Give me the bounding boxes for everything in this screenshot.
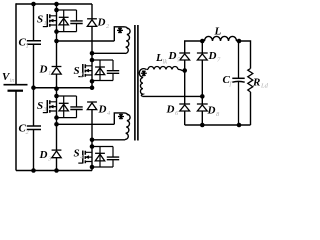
svg-text:S: S: [74, 148, 80, 160]
svg-text:6: 6: [175, 110, 179, 117]
transistor S4: [74, 148, 92, 164]
svg-text:D: D: [168, 50, 177, 62]
wire S2 snubber bottom: [92, 80, 113, 82]
node Cf top: [237, 39, 242, 44]
svg-text:D: D: [98, 104, 107, 116]
node secondary to leg2: [200, 94, 205, 99]
capacitor C2: [19, 88, 42, 171]
wire leg1 bottom: [184, 111, 186, 125]
node S4 snubber bottom: [90, 165, 95, 170]
wire S1 leg: [56, 4, 58, 67]
node mid rail S2: [90, 85, 95, 90]
wire bottom rail: [16, 170, 92, 172]
wire S3 leg: [56, 88, 58, 150]
diode D8: [197, 104, 220, 118]
wire output rail right: [237, 41, 251, 69]
svg-text:D: D: [207, 105, 216, 117]
wire node A2 to primary 2: [57, 123, 115, 125]
transistor S3: [37, 100, 56, 113]
wire left rail lower: [15, 91, 17, 171]
svg-text:1: 1: [48, 70, 51, 77]
wire mid rail: [34, 87, 93, 89]
svg-text:D: D: [166, 104, 175, 116]
node leg2 bottom rail: [200, 123, 205, 128]
diode S3 antiparallel: [59, 96, 69, 118]
svg-text:1: 1: [44, 20, 47, 27]
node bottom rail D3: [54, 168, 59, 173]
inductor L leakage: [147, 52, 185, 71]
wire S2 snubber top: [92, 59, 113, 61]
transistor S1: [37, 14, 56, 28]
capacitor S1 snubber: [70, 10, 82, 32]
svg-text:D: D: [39, 149, 48, 161]
diode S2 antiparallel: [95, 60, 105, 81]
wire leg1 mid: [184, 60, 186, 104]
resistor RLd: [248, 69, 269, 126]
diode D2: [87, 4, 110, 53]
node S2 snubber bottom: [90, 79, 95, 84]
svg-text:2: 2: [106, 23, 110, 30]
node mid rail S3: [54, 86, 59, 91]
transformer secondary winding: [139, 69, 147, 97]
wire S1 snubber top: [57, 9, 77, 11]
node A: [54, 39, 59, 44]
node S4 snubber top: [90, 144, 95, 149]
svg-text:in: in: [10, 77, 15, 84]
node leg2 output top: [200, 39, 205, 44]
transistor S2: [74, 64, 92, 79]
diode D1: [39, 64, 62, 88]
svg-text:f: f: [230, 81, 233, 88]
capacitor S4 snubber: [107, 147, 119, 168]
wire S4 snubber bottom: [92, 166, 113, 168]
node mid rail C: [31, 85, 36, 90]
wire node A to primary 1: [57, 40, 115, 42]
wire rectifier leg 1: [184, 41, 186, 53]
svg-text:1: 1: [26, 43, 29, 50]
wire rectifier leg 2 top: [201, 41, 203, 53]
node B primary1: [90, 51, 95, 56]
node B2 primary2: [90, 138, 95, 143]
node S1 snubber top: [54, 8, 59, 13]
svg-text:3: 3: [47, 156, 52, 163]
diode D3: [39, 149, 62, 171]
diode D7: [197, 50, 221, 64]
svg-text:lk: lk: [163, 59, 168, 66]
wire S2 leg: [91, 53, 93, 87]
svg-text:S: S: [37, 100, 43, 112]
node top rail S1: [54, 2, 59, 7]
node bottom rail C2: [31, 168, 36, 173]
svg-text:D: D: [208, 50, 217, 62]
svg-text:D: D: [39, 64, 48, 76]
diode D6: [166, 104, 191, 118]
transformer primary winding 1: [92, 27, 130, 54]
node S3 snubber bottom: [54, 115, 59, 120]
capacitor Cf: [223, 41, 245, 125]
wire output bottom rail: [185, 124, 251, 126]
node A2: [54, 122, 59, 127]
wire S4 leg: [91, 110, 93, 171]
diode S4 antiparallel: [95, 147, 105, 168]
svg-text:D: D: [97, 17, 106, 29]
wire left rail upper: [15, 3, 17, 84]
capacitor C1: [19, 4, 42, 88]
svg-text:8: 8: [216, 111, 220, 118]
svg-text:S: S: [37, 14, 43, 26]
svg-text:Ld: Ld: [260, 83, 269, 90]
wire leg2 mid: [201, 60, 203, 104]
capacitor S2 snubber: [107, 60, 119, 81]
svg-text:7: 7: [217, 57, 221, 64]
wire leg2 bottom: [201, 111, 203, 125]
node S3 snubber top: [54, 94, 59, 99]
wire top rail: [16, 3, 92, 5]
wire secondary bottom to rectifier: [143, 95, 203, 97]
diode D5: [168, 50, 191, 64]
wire output top rail: [185, 40, 205, 43]
wire S4 snubber top: [92, 146, 113, 148]
transformer primary winding 2: [92, 113, 130, 140]
inductor L filter: [205, 26, 237, 42]
node S1 snubber bottom: [54, 29, 59, 34]
diode D4: [87, 102, 111, 117]
capacitor S3 snubber: [70, 96, 82, 118]
wire S3 snubber top: [57, 95, 77, 97]
transformer core: [135, 25, 138, 141]
voltage source Vin: [2, 71, 28, 91]
svg-text:R: R: [252, 77, 260, 89]
node top rail C1: [31, 2, 36, 7]
svg-text:4: 4: [107, 110, 111, 117]
diode S1 antiparallel: [59, 10, 69, 32]
svg-text:S: S: [74, 65, 80, 77]
wire S1 snubber bottom: [57, 31, 77, 33]
wire S3 snubber bottom: [57, 117, 77, 119]
node Cf bottom: [237, 123, 242, 128]
node S2 snubber top: [90, 58, 95, 63]
node leakage to leg1: [182, 68, 187, 73]
svg-text:L: L: [214, 26, 222, 38]
